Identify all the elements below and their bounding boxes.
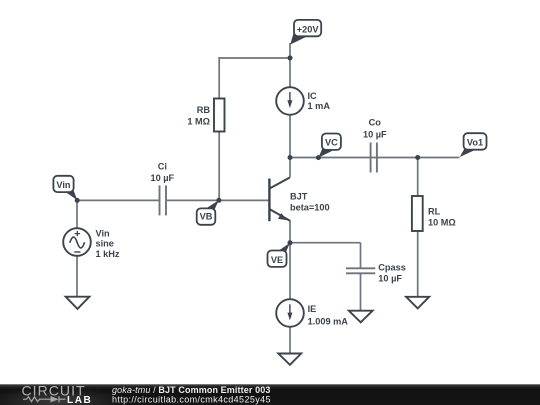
- svg-text:BJT: BJT: [290, 192, 308, 202]
- svg-text:Vo1: Vo1: [467, 137, 483, 147]
- svg-text:VB: VB: [200, 211, 213, 221]
- svg-text:LAB: LAB: [67, 395, 92, 405]
- svg-text:IC: IC: [308, 91, 318, 101]
- svg-text:10 µF: 10 µF: [378, 273, 402, 283]
- svg-text:1.009 mA: 1.009 mA: [308, 316, 349, 326]
- svg-text:Ci: Ci: [158, 162, 167, 172]
- svg-text:RB: RB: [197, 105, 211, 115]
- svg-text:Vin: Vin: [96, 229, 111, 239]
- svg-text:beta=100: beta=100: [290, 203, 330, 213]
- svg-text:sine: sine: [96, 239, 114, 249]
- svg-text:1 mA: 1 mA: [308, 101, 331, 111]
- svg-text:VE: VE: [271, 255, 283, 265]
- svg-text:Vin: Vin: [56, 180, 71, 190]
- svg-text:10 MΩ: 10 MΩ: [428, 218, 456, 228]
- svg-text:Co: Co: [369, 118, 382, 128]
- svg-text:RL: RL: [428, 207, 441, 217]
- svg-text:1 MΩ: 1 MΩ: [187, 117, 210, 127]
- svg-text:Cpass: Cpass: [378, 263, 406, 273]
- svg-text:+20V: +20V: [297, 24, 320, 34]
- svg-text:10 µF: 10 µF: [150, 173, 174, 183]
- svg-text:http://circuitlab.com/cmk4cd45: http://circuitlab.com/cmk4cd4525y45: [112, 394, 271, 404]
- svg-text:VC: VC: [325, 137, 338, 147]
- svg-text:1 kHz: 1 kHz: [96, 249, 120, 259]
- svg-text:10 µF: 10 µF: [363, 130, 387, 140]
- svg-text:IE: IE: [308, 304, 317, 314]
- svg-text:goka-tmu / BJT Common Emitter: goka-tmu / BJT Common Emitter 003: [112, 385, 271, 395]
